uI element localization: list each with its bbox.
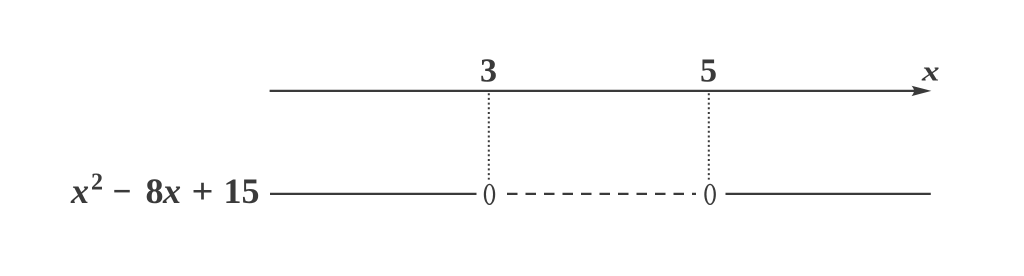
number line axis — [270, 90, 915, 92]
sign row solid segment right of 5 — [726, 193, 931, 195]
svg-text:3: 3 — [480, 53, 497, 90]
zero glyph at x=3 — [484, 184, 495, 205]
axis arrowhead — [913, 86, 930, 95]
dotted dropline at x=5 — [708, 93, 710, 179]
sign row dashed segment between 3 and 5 — [507, 193, 696, 195]
svg-text:5: 5 — [700, 53, 717, 90]
dotted dropline at x=3 — [488, 93, 490, 179]
zero glyph at x=5 — [704, 184, 716, 205]
svg-text:x: x — [921, 57, 940, 88]
svg-text:x2−8x+15: x2−8x+15 — [70, 170, 260, 212]
sign row solid segment left of 3 — [270, 193, 477, 195]
